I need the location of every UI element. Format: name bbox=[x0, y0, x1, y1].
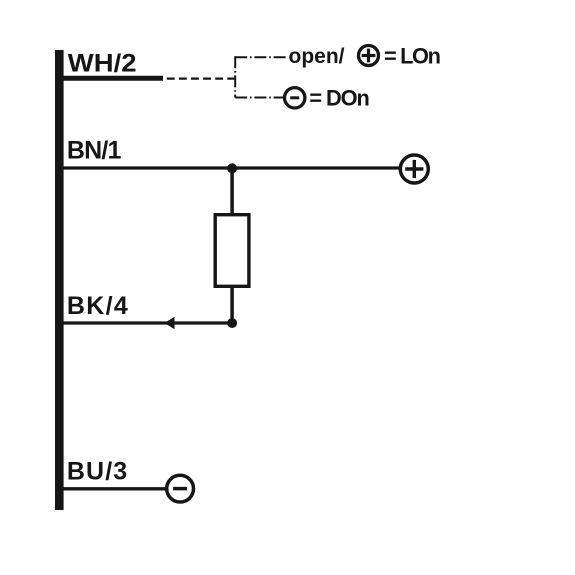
svg-text:WH/2: WH/2 bbox=[68, 49, 137, 78]
svg-text:= LOn: = LOn bbox=[384, 44, 440, 69]
wire from node to resistor top bbox=[230, 168, 234, 214]
node junction on BK/4 bbox=[227, 318, 237, 328]
svg-text:BU/3: BU/3 bbox=[67, 457, 128, 485]
svg-text:BN/1: BN/1 bbox=[67, 136, 122, 164]
terminal symbol minus small (DOn) bbox=[285, 88, 305, 108]
arrowhead on BK/4 wire bbox=[165, 317, 175, 329]
wire BK/4 bbox=[63, 321, 232, 324]
wire WH/2 dashed segment bbox=[167, 77, 235, 79]
svg-text:open/: open/ bbox=[289, 45, 345, 68]
terminal symbol plus small (LOn) bbox=[359, 46, 379, 66]
bracket bottom dash-dot wire bbox=[235, 97, 284, 99]
wire BN/1 bbox=[63, 166, 401, 169]
resistor (load) bbox=[215, 215, 249, 287]
svg-text:= DOn: = DOn bbox=[309, 86, 368, 111]
wire from resistor bottom to node bbox=[230, 286, 234, 323]
wire BU/3 bbox=[63, 487, 167, 490]
wire WH/2 solid segment bbox=[63, 76, 163, 81]
bracket top dash-dot wire bbox=[235, 56, 286, 58]
terminal symbol plus (supply +) bbox=[400, 155, 428, 183]
svg-text:BK/4: BK/4 bbox=[67, 292, 129, 320]
bracket vertical dash-dot wire bbox=[234, 56, 236, 97]
node junction on BN/1 bbox=[227, 163, 237, 173]
connector rail bar bbox=[55, 50, 64, 510]
terminal symbol minus (supply -) bbox=[167, 475, 194, 502]
